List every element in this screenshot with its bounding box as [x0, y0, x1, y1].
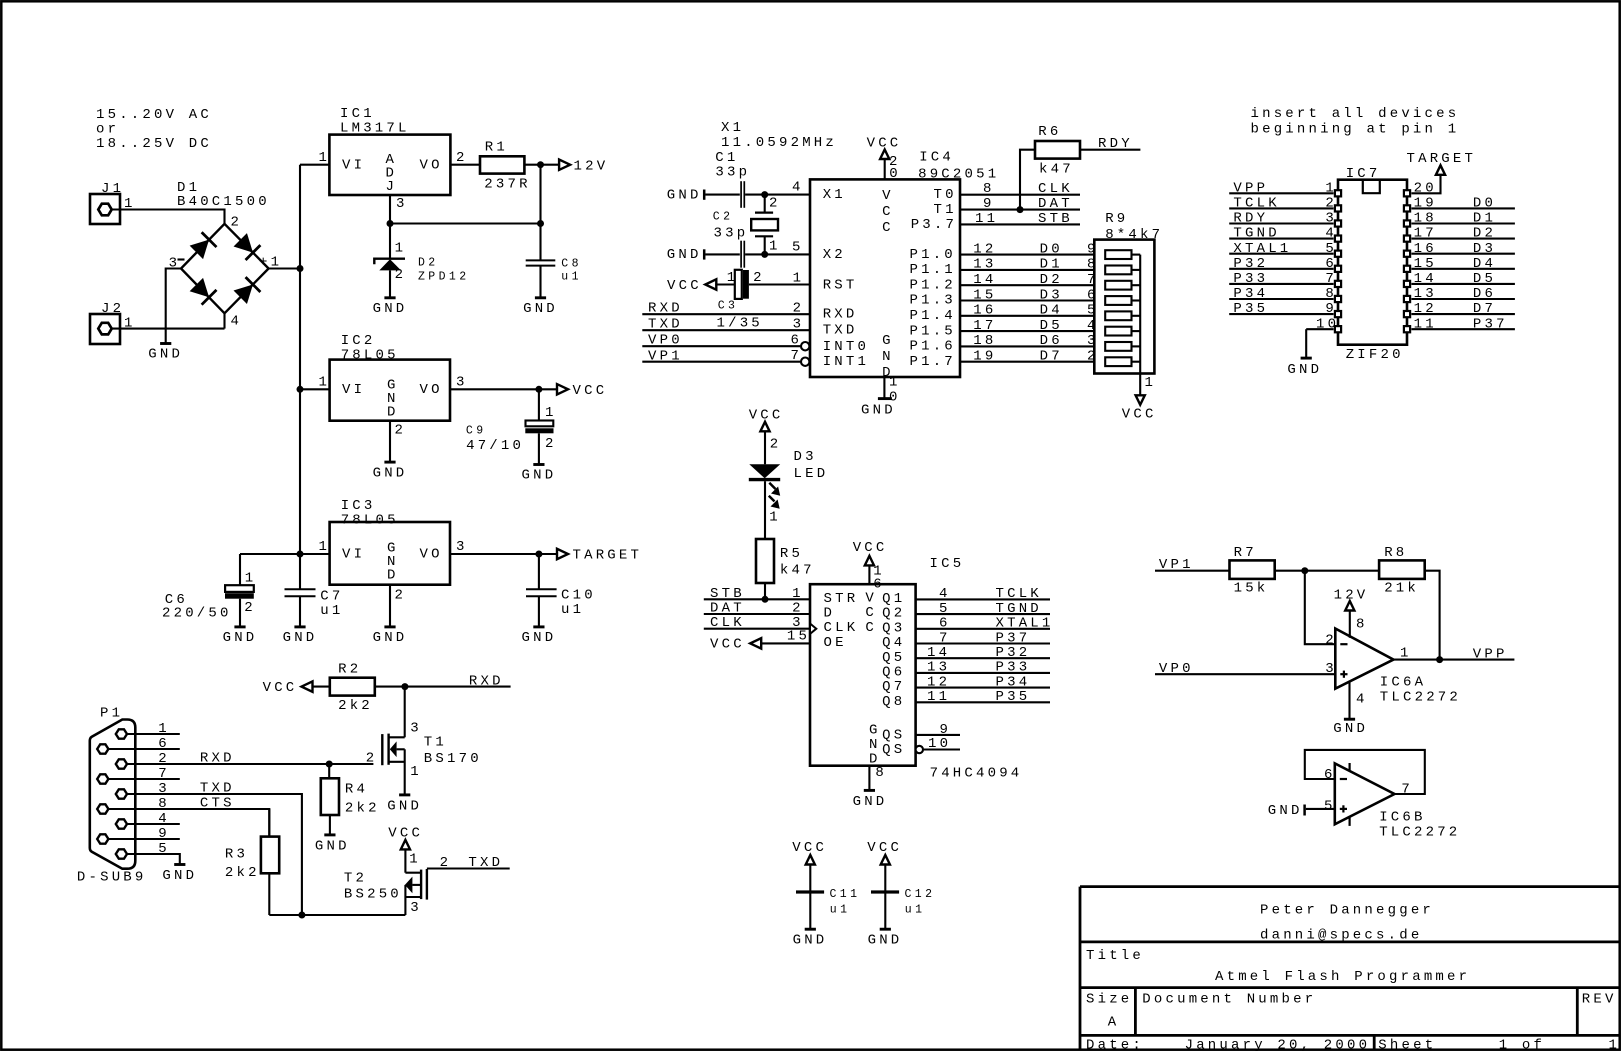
svg-text:GND: GND: [793, 932, 828, 948]
svg-text:C8: C8: [561, 257, 582, 270]
svg-text:N: N: [869, 737, 881, 753]
capacitor C1 plates: [740, 181, 742, 208]
svg-text:1: 1: [793, 271, 805, 287]
svg-text:XTAL1: XTAL1: [996, 616, 1054, 632]
svg-text:33p: 33p: [714, 225, 749, 241]
wire P37 from IC5 pin 7: [916, 642, 1050, 644]
svg-text:Q5: Q5: [882, 650, 905, 666]
svg-text:BS170: BS170: [424, 751, 482, 767]
svg-text:12: 12: [1414, 301, 1437, 317]
capacitor C10 u1: [538, 554, 540, 589]
svg-text:C11: C11: [830, 888, 861, 901]
wire R4 to ground: [329, 815, 331, 835]
svg-text:u1: u1: [830, 904, 851, 917]
svg-text:2k2: 2k2: [225, 865, 260, 881]
svg-text:VI: VI: [342, 382, 365, 398]
svg-text:2: 2: [792, 601, 804, 617]
svg-text:74HC4094: 74HC4094: [930, 765, 1023, 781]
svg-text:VO: VO: [420, 547, 443, 563]
svg-text:2: 2: [770, 437, 782, 453]
svg-text:2: 2: [244, 600, 256, 616]
svg-text:C2: C2: [713, 211, 734, 224]
svg-text:GND: GND: [868, 932, 903, 948]
svg-text:C12: C12: [905, 888, 936, 901]
svg-text:1: 1: [889, 375, 901, 391]
svg-text:3: 3: [410, 900, 422, 916]
svg-text:16: 16: [1414, 241, 1437, 257]
ground at C6: [234, 625, 245, 628]
svg-text:P1.3: P1.3: [910, 293, 956, 309]
svg-text:15k: 15k: [1234, 581, 1269, 597]
svg-text:RST: RST: [823, 278, 858, 294]
svg-text:D3: D3: [1040, 287, 1063, 303]
svg-text:12: 12: [927, 674, 950, 690]
svg-text:u1: u1: [905, 904, 926, 917]
svg-text:2: 2: [366, 750, 378, 766]
wire P1 pin 9: [108, 838, 179, 840]
svg-text:Q8: Q8: [882, 694, 905, 710]
svg-text:P32: P32: [1233, 256, 1268, 272]
svg-text:IC6B: IC6B: [1379, 809, 1425, 825]
svg-text:1: 1: [395, 240, 407, 256]
svg-text:P1.2: P1.2: [910, 277, 956, 293]
svg-text:GND: GND: [523, 301, 558, 317]
wire T2 gate TXD: [427, 867, 510, 869]
capacitor C9 47/10: [538, 389, 540, 420]
wire P35 to IC7 pin 9: [1229, 313, 1333, 315]
svg-text:1: 1: [1145, 375, 1157, 391]
svg-text:D1: D1: [1040, 257, 1063, 273]
resistor R4 2k2: [328, 764, 330, 778]
svg-text:R1: R1: [485, 139, 508, 155]
svg-text:220/50: 220/50: [162, 606, 232, 622]
wire R5 to STB: [764, 583, 766, 599]
svg-text:V: V: [882, 188, 894, 204]
svg-text:VO: VO: [420, 382, 443, 398]
ground at bridge pin 3: [166, 269, 181, 343]
svg-text:GND: GND: [148, 347, 183, 363]
svg-text:237R: 237R: [484, 176, 530, 192]
svg-text:P3.7: P3.7: [911, 217, 957, 233]
svg-text:X1: X1: [823, 187, 846, 203]
svg-text:GND: GND: [853, 794, 888, 810]
svg-text:4: 4: [792, 180, 804, 196]
svg-text:2: 2: [395, 587, 407, 603]
svg-text:P34: P34: [1233, 286, 1268, 302]
wire D6 from IC7 pin 13: [1411, 298, 1515, 300]
wire D3 from IC7 pin 16: [1411, 253, 1515, 255]
svg-text:LED: LED: [794, 466, 829, 482]
svg-text:Q7: Q7: [882, 679, 905, 695]
svg-text:GND: GND: [373, 301, 408, 317]
svg-text:D5: D5: [1040, 318, 1063, 334]
svg-text:13: 13: [1414, 286, 1437, 302]
svg-text:BS250: BS250: [344, 887, 402, 903]
svg-text:J: J: [386, 179, 398, 195]
svg-text:VPP: VPP: [1473, 647, 1508, 663]
svg-text:5: 5: [1324, 799, 1336, 815]
svg-text:VPP: VPP: [1233, 180, 1268, 196]
svg-text:beginning at pin 1: beginning at pin 1: [1251, 122, 1460, 138]
svg-text:1/35: 1/35: [717, 316, 763, 332]
op-amp IC6B TLC2272: [1335, 763, 1395, 824]
svg-text:TCLK: TCLK: [1233, 196, 1279, 212]
wire P1 pin 2 RXD: [127, 763, 373, 765]
LED D3: [749, 464, 780, 478]
wire TCLK from IC5 pin 4: [916, 598, 1050, 600]
wire D0 from IC7 pin 19: [1411, 207, 1515, 209]
svg-text:4: 4: [1356, 692, 1368, 708]
svg-text:D3: D3: [794, 449, 817, 465]
svg-text:11.0592MHz: 11.0592MHz: [721, 135, 837, 151]
ground at IC5 pin 8: [868, 766, 870, 790]
svg-text:R2: R2: [338, 661, 361, 677]
svg-text:GND: GND: [1268, 803, 1303, 819]
svg-text:TGND: TGND: [1233, 226, 1279, 242]
svg-text:P33: P33: [996, 660, 1031, 676]
wire P34 to IC7 pin 8: [1229, 298, 1333, 300]
ground at T1 source: [399, 793, 410, 796]
svg-text:C9: C9: [466, 425, 487, 438]
svg-text:16: 16: [973, 303, 996, 319]
wire P32 from IC5 pin 14: [916, 657, 1050, 659]
wire TGND from IC5 pin 5: [916, 613, 1050, 615]
svg-text:VO: VO: [420, 157, 443, 173]
svg-text:1: 1: [727, 270, 739, 286]
svg-text:GND: GND: [223, 630, 258, 646]
svg-text:TXD: TXD: [468, 855, 503, 871]
svg-text:2: 2: [158, 751, 170, 767]
wire P1 pin 6: [108, 748, 179, 750]
svg-text:u1: u1: [561, 602, 584, 618]
svg-text:6: 6: [158, 736, 170, 752]
svg-text:G: G: [882, 333, 894, 349]
wire P1 pin 7: [108, 778, 179, 780]
svg-text:D-SUB9: D-SUB9: [77, 870, 147, 886]
capacitor C6 220/50: [239, 554, 241, 585]
svg-text:D: D: [387, 568, 399, 584]
svg-text:1: 1: [245, 571, 257, 587]
svg-text:R3: R3: [225, 846, 248, 862]
zener diode D2 ZPD12: [389, 224, 391, 259]
svg-text:GND: GND: [1287, 362, 1322, 378]
svg-text:D2: D2: [1473, 226, 1496, 242]
svg-text:18: 18: [973, 333, 996, 349]
svg-text:VCC: VCC: [853, 540, 888, 556]
ground at IC3: [384, 625, 395, 628]
svg-text:VI: VI: [342, 157, 365, 173]
svg-text:G: G: [869, 722, 881, 738]
wire P34 from IC5 pin 12: [916, 687, 1050, 689]
svg-text:P34: P34: [996, 674, 1031, 690]
svg-text:R8: R8: [1384, 545, 1407, 561]
wire R8 to VPP node: [1425, 571, 1440, 660]
wire P1 pin 8 CTS: [108, 809, 269, 837]
svg-text:GND: GND: [667, 247, 702, 263]
svg-text:GND: GND: [667, 187, 702, 203]
svg-text:2: 2: [395, 267, 407, 283]
svg-text:1: 1: [1609, 1037, 1621, 1051]
svg-text:3: 3: [793, 317, 805, 333]
wire IC6B feedback loop: [1305, 750, 1425, 794]
ground at C8: [535, 296, 546, 299]
svg-text:P1.4: P1.4: [910, 308, 956, 324]
wire C2 to IC4 pin 5 X2: [745, 253, 810, 255]
svg-text:D7: D7: [1473, 301, 1496, 317]
svg-text:GND: GND: [387, 799, 422, 815]
power symbol 12V: [559, 160, 570, 170]
svg-text:QS: QS: [882, 728, 905, 744]
svg-text:DAT: DAT: [1038, 196, 1073, 212]
svg-text:1: 1: [319, 539, 331, 555]
svg-text:7: 7: [791, 348, 803, 364]
svg-text:8: 8: [875, 765, 887, 781]
svg-text:TXD: TXD: [823, 323, 858, 339]
wire ADJ feedback: [539, 165, 541, 224]
svg-text:QS: QS: [882, 742, 905, 758]
wire P1 pin 3 TXD: [127, 794, 302, 915]
svg-text:D5: D5: [1473, 271, 1496, 287]
ground at D2: [384, 296, 395, 299]
svg-text:1: 1: [769, 239, 781, 255]
svg-text:Q6: Q6: [882, 665, 905, 681]
svg-text:C: C: [882, 220, 894, 236]
svg-text:OE: OE: [824, 635, 847, 651]
svg-text:GND: GND: [283, 630, 318, 646]
svg-text:B40C1500: B40C1500: [177, 194, 270, 210]
title block outline: [1079, 887, 1082, 1050]
svg-text:Date:: Date:: [1086, 1037, 1144, 1051]
svg-text:INT1: INT1: [823, 354, 869, 370]
svg-text:1: 1: [409, 852, 421, 868]
wire R3 to T2 source: [268, 873, 270, 915]
svg-text:D3: D3: [1473, 241, 1496, 257]
wire P1 pin 4: [127, 823, 180, 825]
svg-text:Peter Dannegger: Peter Dannegger: [1260, 902, 1434, 918]
power symbol VCC: [557, 384, 568, 394]
svg-text:2: 2: [395, 423, 407, 439]
wire P35 from IC5 pin 11: [916, 701, 1050, 703]
svg-text:Q2: Q2: [882, 606, 905, 622]
IC7 pin pads: [1335, 190, 1341, 196]
svg-text:u1: u1: [561, 271, 582, 284]
svg-text:Size: Size: [1086, 991, 1132, 1007]
svg-text:1 of: 1 of: [1499, 1037, 1545, 1051]
svg-text:1: 1: [319, 375, 331, 391]
svg-text:13: 13: [927, 660, 950, 676]
svg-text:D6: D6: [1040, 333, 1063, 349]
svg-text:REV: REV: [1582, 991, 1617, 1007]
svg-text:TLC2272: TLC2272: [1379, 824, 1460, 840]
ground at IC6A pin 4: [1348, 681, 1350, 719]
transistor T2 BS250: [420, 870, 422, 900]
svg-text:GND: GND: [522, 630, 557, 646]
svg-text:INT0: INT0: [823, 339, 869, 355]
svg-text:January 20, 2000: January 20, 2000: [1185, 1037, 1371, 1051]
wire XTAL1 from IC5 pin 6: [916, 628, 1050, 630]
svg-text:78L05: 78L05: [341, 348, 399, 364]
svg-text:D7: D7: [1040, 349, 1063, 365]
svg-text:STR: STR: [824, 591, 859, 607]
svg-text:GND: GND: [373, 465, 408, 481]
svg-text:P1.0: P1.0: [910, 247, 956, 263]
svg-text:P37: P37: [996, 630, 1031, 646]
svg-text:2: 2: [456, 150, 468, 166]
svg-text:8: 8: [158, 796, 170, 812]
svg-text:C: C: [882, 204, 894, 220]
svg-text:P35: P35: [1233, 301, 1268, 317]
svg-text:VCC: VCC: [710, 637, 745, 653]
svg-text:P1: P1: [100, 706, 123, 722]
svg-text:15: 15: [973, 287, 996, 303]
svg-text:RDY: RDY: [1098, 136, 1133, 152]
wire R1 to 12V node: [524, 164, 559, 166]
wire R6 to DAT: [1020, 150, 1035, 210]
wire D7 from IC7 pin 12: [1411, 313, 1515, 315]
svg-text:8: 8: [1356, 616, 1368, 632]
svg-text:1: 1: [410, 764, 422, 780]
svg-text:D0: D0: [1040, 241, 1063, 257]
svg-text:P32: P32: [996, 645, 1031, 661]
op-amp IC6A TLC2272: [1335, 629, 1393, 689]
svg-text:P1.7: P1.7: [910, 354, 956, 370]
svg-text:IC6A: IC6A: [1380, 675, 1426, 691]
wire P33 from IC5 pin 13: [916, 672, 1050, 674]
svg-text:D4: D4: [1040, 303, 1063, 319]
svg-text:Atmel Flash Programmer: Atmel Flash Programmer: [1215, 969, 1470, 985]
svg-text:GND: GND: [315, 839, 350, 855]
svg-text:C: C: [865, 605, 877, 621]
wire P32 to IC7 pin 6: [1229, 268, 1333, 270]
wire C1 to IC4 pin 4 X1: [745, 194, 810, 196]
svg-text:TXD: TXD: [200, 781, 235, 797]
svg-text:T0: T0: [934, 187, 957, 203]
resistor R5 k47: [756, 539, 774, 583]
svg-text:2: 2: [545, 436, 557, 452]
svg-text:P37: P37: [1473, 316, 1508, 332]
resistor R3 2k2: [268, 809, 270, 837]
wire R2 to RXD out: [375, 686, 511, 688]
svg-text:1: 1: [769, 509, 781, 525]
wire bridge output to input bus: [269, 267, 300, 269]
svg-text:6: 6: [873, 577, 885, 593]
vertical input bus wire: [299, 165, 301, 554]
wire J1 to bridge pin 2: [111, 210, 225, 224]
svg-text:R7: R7: [1234, 545, 1257, 561]
svg-text:D2: D2: [418, 257, 439, 270]
svg-text:9: 9: [158, 826, 170, 842]
svg-text:VCC: VCC: [749, 408, 784, 424]
svg-text:GND: GND: [373, 630, 408, 646]
svg-text:ZPD12: ZPD12: [418, 271, 470, 284]
svg-text:3: 3: [396, 196, 408, 212]
svg-text:R4: R4: [345, 781, 368, 797]
svg-text:TARGET: TARGET: [573, 548, 643, 564]
transistor T1 BS170: [381, 734, 383, 765]
svg-text:18: 18: [1414, 211, 1437, 227]
svg-text:3: 3: [410, 721, 422, 737]
svg-text:20: 20: [1414, 180, 1437, 196]
svg-text:ZIF20: ZIF20: [1346, 347, 1404, 363]
svg-text:Q1: Q1: [882, 591, 905, 607]
svg-text:6: 6: [1324, 767, 1336, 783]
svg-text:u1: u1: [320, 603, 343, 619]
svg-text:STB: STB: [1038, 211, 1073, 227]
svg-text:X1: X1: [721, 120, 744, 136]
svg-text:P1.1: P1.1: [910, 262, 956, 278]
svg-text:k47: k47: [1039, 162, 1074, 178]
svg-text:17: 17: [1414, 226, 1437, 242]
svg-text:CLK: CLK: [824, 620, 859, 636]
svg-text:T1: T1: [934, 202, 957, 218]
wire junction to IC6A inverting input: [1305, 571, 1336, 645]
svg-text:N: N: [882, 349, 894, 365]
svg-text:P1.5: P1.5: [910, 323, 956, 339]
svg-text:3: 3: [456, 539, 468, 555]
svg-text:C: C: [865, 620, 877, 636]
svg-text:VCC: VCC: [1122, 407, 1157, 423]
wire TCLK to IC7 pin 2: [1229, 207, 1333, 209]
svg-text:Document Number: Document Number: [1142, 991, 1316, 1007]
svg-text:IC4: IC4: [919, 150, 954, 166]
svg-text:2k2: 2k2: [345, 801, 380, 817]
svg-text:1: 1: [158, 721, 170, 737]
svg-text:VCC: VCC: [573, 383, 608, 399]
svg-text:15: 15: [1414, 256, 1437, 272]
wire R7 to R8: [1275, 570, 1379, 572]
svg-text:3: 3: [456, 375, 468, 391]
svg-text:D1: D1: [1473, 211, 1496, 227]
wire GND to C2: [705, 253, 739, 255]
svg-text:19: 19: [973, 349, 996, 365]
wire D1 from IC7 pin 18: [1411, 222, 1515, 224]
svg-text:GND: GND: [162, 868, 197, 884]
svg-text:2k2: 2k2: [338, 698, 373, 714]
ground at C9: [533, 463, 544, 466]
svg-text:47/10: 47/10: [466, 438, 524, 454]
ground at C10: [533, 625, 544, 628]
svg-text:RXD: RXD: [200, 751, 235, 767]
svg-text:4: 4: [939, 586, 951, 602]
svg-text:3: 3: [158, 781, 170, 797]
wire D4 from IC7 pin 15: [1411, 268, 1515, 270]
wire TGND to IC7 pin 4: [1229, 238, 1333, 240]
svg-text:5: 5: [939, 601, 951, 617]
svg-text:12: 12: [973, 241, 996, 257]
svg-text:V: V: [865, 590, 877, 606]
wire GND to C1: [705, 194, 739, 196]
svg-text:13: 13: [973, 257, 996, 273]
wire D3 to R5: [764, 481, 766, 539]
ground at IC4 pin 10: [883, 377, 885, 398]
svg-text:danni@specs.de: danni@specs.de: [1260, 927, 1422, 943]
svg-text:18..25V DC: 18..25V DC: [96, 136, 212, 152]
svg-text:R6: R6: [1038, 124, 1061, 140]
svg-text:VCC: VCC: [667, 278, 702, 294]
svg-text:CTS: CTS: [200, 796, 235, 812]
svg-text:4: 4: [158, 811, 170, 827]
svg-text:D: D: [387, 404, 399, 420]
svg-text:P33: P33: [1233, 271, 1268, 287]
svg-text:RXD: RXD: [823, 307, 858, 323]
svg-text:k47: k47: [780, 563, 815, 579]
svg-text:11: 11: [927, 689, 950, 705]
svg-text:TGND: TGND: [996, 601, 1042, 617]
wire P1 pin 1: [127, 733, 180, 735]
wire IC6A output to VPP: [1394, 659, 1515, 661]
svg-text:D6: D6: [1473, 286, 1496, 302]
svg-text:Q3: Q3: [882, 620, 905, 636]
